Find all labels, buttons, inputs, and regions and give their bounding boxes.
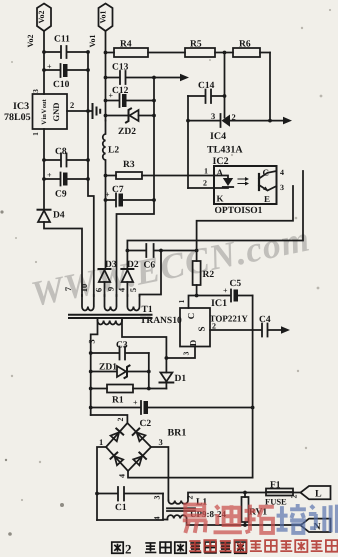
junction C2 row / right rail: [251, 406, 255, 410]
svg-text:+: +: [223, 286, 228, 295]
wire R3 to opto pin1: [142, 175, 214, 177]
svg-text:A: A: [217, 168, 224, 178]
choke L1 bottom winding: [167, 515, 300, 525]
svg-text:R2: R2: [203, 270, 215, 280]
svg-text:3: 3: [153, 496, 162, 500]
svg-text:+: +: [47, 62, 52, 71]
svg-text:+: +: [47, 171, 52, 180]
T1 secondary winding 6-9: [105, 295, 117, 311]
svg-text:2: 2: [125, 542, 132, 557]
svg-text:C11: C11: [54, 35, 70, 45]
svg-text:3: 3: [182, 351, 191, 355]
capacitor C1: [97, 487, 163, 501]
svg-text:IC3: IC3: [13, 101, 29, 112]
node L input flag: [301, 486, 331, 499]
resistor R6: [233, 48, 270, 57]
svg-text:IC4: IC4: [210, 131, 226, 142]
junction C10 left: [42, 68, 46, 72]
junction R5/R6: [223, 51, 227, 55]
choke L1 top winding: [168, 493, 300, 504]
svg-text:C8: C8: [55, 147, 67, 157]
capacitor C2 (electrolytic) on DC bus row: [91, 401, 253, 414]
svg-text:1: 1: [177, 299, 186, 303]
node N input flag: [301, 519, 331, 532]
capacitor C12 (electrolytic): [106, 94, 155, 107]
svg-text:Vo1: Vo1: [88, 34, 97, 47]
svg-text:L: L: [315, 489, 322, 500]
wire feedback rail (C14 left / opto K): [187, 96, 189, 188]
svg-text:4: 4: [118, 474, 127, 478]
junction ZD1 right: [147, 370, 151, 374]
bridge diode top-right: [133, 428, 146, 441]
svg-text:3: 3: [159, 437, 163, 447]
junction C13 left: [104, 76, 108, 80]
junction C14/ref: [223, 94, 227, 98]
junction C1 left: [95, 492, 99, 496]
caption 图2 系统电源原理图: [112, 542, 123, 553]
red watermark big characters 易迪拓: [183, 505, 274, 533]
svg-text:+: +: [133, 398, 138, 407]
svg-text:R5: R5: [190, 40, 202, 50]
svg-text:T1: T1: [142, 305, 153, 315]
junction C13/right rail: [152, 76, 156, 80]
svg-text:R3: R3: [123, 160, 135, 170]
svg-text:1: 1: [204, 167, 208, 176]
svg-text:BR1: BR1: [168, 428, 187, 439]
optocoupler IC2 body: [214, 166, 277, 204]
wire opto pin2 row: [188, 187, 214, 189]
T1 primary winding: [98, 318, 123, 325]
svg-text:L2: L2: [108, 146, 119, 156]
svg-text:1: 1: [31, 132, 40, 136]
wire Vo1 rail: [105, 31, 107, 121]
junction C8 right: [86, 158, 90, 162]
svg-text:5: 5: [128, 288, 138, 292]
wire IC3 pin2 to ground: [67, 110, 93, 112]
diode D2: [121, 269, 133, 296]
svg-text:Vo2: Vo2: [37, 10, 46, 23]
junction C11 left: [42, 50, 46, 54]
svg-text:IC2: IC2: [213, 156, 229, 167]
T1 secondary winding 4-5: [127, 295, 139, 311]
net arrow after IC4: [283, 117, 292, 125]
svg-text:9: 9: [106, 287, 116, 291]
junction R4 row: [104, 51, 108, 55]
svg-text:2: 2: [116, 418, 125, 422]
junction C9 right: [86, 177, 90, 181]
blue watermark big characters 培训: [277, 504, 337, 533]
diode D3: [99, 269, 111, 296]
junction C6 left: [126, 249, 130, 253]
bridge diode top-left: [110, 429, 123, 442]
svg-text:C: C: [186, 313, 196, 320]
wire bridge + to DC row: [91, 415, 128, 423]
svg-text:F1: F1: [270, 481, 281, 491]
svg-text:10: 10: [79, 284, 89, 293]
wire IC1 pin3 drain: [166, 347, 195, 359]
wire to transformer pin5: [140, 251, 162, 297]
junction C10 right: [86, 68, 90, 72]
opto LED: [214, 176, 233, 189]
svg-text:2: 2: [212, 322, 216, 331]
wire primary left (pin3) down: [91, 321, 98, 416]
wire right rail C11/C10/C8/C9: [88, 52, 94, 296]
wire R5/R6 tap down to TL431 ref: [224, 53, 226, 118]
svg-text:E: E: [264, 194, 270, 204]
resistor R2: [193, 261, 201, 296]
svg-text:C1: C1: [115, 503, 127, 513]
junction DC+ row: [89, 406, 93, 410]
svg-text:2: 2: [203, 179, 207, 188]
diode D4: [38, 210, 51, 222]
svg-text:4: 4: [153, 517, 162, 521]
svg-text:C4: C4: [259, 315, 271, 325]
ground (earth, rotated): [93, 104, 101, 118]
svg-text:4: 4: [280, 168, 284, 177]
svg-text:1: 1: [99, 437, 103, 447]
choke L1 core: [167, 508, 195, 511]
switcher IC1 TOP221Y body: [180, 308, 210, 347]
zener ZD1: [91, 366, 149, 379]
svg-text:3: 3: [87, 339, 97, 343]
fuse F1: [266, 489, 293, 496]
svg-text:C10: C10: [53, 80, 70, 90]
shunt regulator IC4 TL431A: [188, 114, 283, 127]
svg-text:ZD2: ZD2: [118, 127, 136, 137]
svg-text:C3: C3: [116, 341, 128, 351]
junction C8 left: [42, 158, 46, 162]
bridge diode bottom-left: [111, 453, 124, 466]
svg-text:S: S: [197, 326, 207, 331]
capacitor C5 (electrolytic): [231, 290, 253, 302]
wire opto E net (pin3 to R2): [197, 186, 293, 261]
wire right rail ZD2 down to pin9: [117, 78, 155, 297]
svg-text:TRANS10: TRANS10: [140, 316, 182, 326]
svg-text:78L05: 78L05: [4, 112, 31, 123]
opto phototransistor: [259, 171, 277, 191]
junction C12 left: [104, 99, 108, 103]
svg-text:6: 6: [94, 288, 104, 292]
junction C7 right: [152, 198, 156, 202]
wire DC- right rail: [252, 296, 254, 478]
svg-text:C6: C6: [144, 261, 156, 271]
transformer T1 core: [69, 315, 152, 318]
svg-text:C2: C2: [140, 419, 152, 429]
opto coupling arrows: [238, 177, 249, 186]
capacitor C11: [44, 46, 88, 58]
svg-text:C5: C5: [230, 279, 242, 289]
svg-text:WWW.ECCN.com: WWW.ECCN.com: [28, 218, 314, 314]
svg-text:V in V out: V in V out: [41, 98, 48, 124]
svg-text:C14: C14: [198, 81, 215, 91]
svg-text:D1: D1: [175, 374, 187, 384]
svg-text:2: 2: [70, 100, 74, 110]
zener ZD2: [106, 109, 155, 123]
resistor R5: [185, 48, 233, 57]
svg-text:C7: C7: [112, 185, 124, 195]
svg-text:R1: R1: [112, 396, 124, 406]
junction C6 right on R2 rail: [195, 249, 199, 253]
capacitor C14: [188, 90, 225, 104]
svg-text:3: 3: [31, 89, 40, 93]
svg-text:TL431A: TL431A: [207, 145, 243, 156]
svg-text:C13: C13: [112, 63, 129, 73]
junction ZD2 right: [152, 114, 156, 118]
red watermark slogan line 射频和天线设计专家: [189, 540, 337, 552]
junction pin2/rail: [86, 109, 90, 113]
node Vo1 flag: [99, 4, 113, 32]
resistor R3: [106, 172, 143, 179]
svg-text:2: 2: [290, 495, 299, 499]
svg-text:Vo2: Vo2: [26, 34, 35, 47]
svg-text:C12: C12: [112, 86, 129, 96]
svg-text:D2: D2: [127, 260, 139, 270]
net arrow after C13: [180, 74, 189, 81]
bridge BR1 diamond: [106, 423, 151, 471]
junction C12 right: [152, 99, 156, 103]
svg-text:D4: D4: [53, 211, 65, 221]
wire opto C net (pin4 to D2): [127, 171, 303, 269]
wire Vo2 rail upper: [43, 31, 45, 94]
wire IC1 pin2 to C4: [210, 329, 262, 331]
junction TL431 row left: [186, 119, 190, 123]
svg-text:OPTOISO1: OPTOISO1: [215, 206, 263, 216]
junction R1 row / clamp rail: [147, 387, 151, 391]
wire D4 to transformer pin7: [44, 222, 82, 296]
wire bridge node4 to DC- rail: [128, 471, 253, 478]
junction C7 left: [104, 198, 108, 202]
wire IC3 pin1 rail down: [43, 129, 45, 210]
svg-text:C9: C9: [55, 190, 67, 200]
junction C9 left: [42, 177, 46, 181]
svg-text:Vo1: Vo1: [99, 10, 108, 23]
junction RV1 bottom: [243, 523, 247, 527]
wire clamp right rail: [148, 353, 150, 389]
junction C3 row: [89, 351, 93, 355]
svg-text:2: 2: [232, 112, 236, 122]
inductor L2: [103, 121, 106, 270]
svg-text:R4: R4: [120, 40, 132, 50]
svg-text:ZD1: ZD1: [99, 363, 117, 373]
capacitor C13: [106, 71, 182, 84]
net arrow after C4: [281, 326, 290, 333]
junction R2/IC1 pin1/C5: [195, 294, 199, 298]
regulator IC3 78L05 body: [33, 94, 68, 129]
diode D1: [160, 373, 174, 389]
svg-text:GND: GND: [51, 103, 61, 122]
node Vo2 flag: [37, 4, 51, 32]
bridge diode bottom-right: [133, 452, 146, 465]
wire IC1 pin1 node row: [189, 296, 231, 309]
junction R3 row: [104, 174, 108, 178]
junction C6/pin5 branch: [159, 249, 163, 253]
junction drain/primary: [165, 356, 169, 360]
junction TL431 row / R6 drop: [268, 119, 272, 123]
wire R6 down to IC4 row: [269, 53, 271, 121]
capacitor C4: [262, 324, 281, 337]
wire bridge node1 down: [97, 447, 106, 520]
varistor RV1: [242, 493, 249, 526]
svg-text:D3: D3: [105, 260, 117, 270]
svg-text:3: 3: [280, 183, 284, 192]
wire bottom row to L1 pin4: [97, 519, 167, 522]
resistor R1: [91, 385, 167, 393]
junction C11 right: [86, 50, 90, 54]
svg-text:2: 2: [186, 496, 195, 500]
svg-text:IC1: IC1: [211, 298, 227, 309]
T1 secondary winding 7-10: [82, 295, 94, 311]
svg-text:K: K: [217, 194, 224, 204]
capacitor C10 (electrolytic): [44, 64, 88, 77]
capacitor C6: [127, 244, 196, 257]
junction ZD2 left: [104, 114, 108, 118]
svg-text:C: C: [263, 168, 270, 178]
capacitor C3: [91, 347, 149, 360]
wire C1 right down to L1 pin4: [162, 494, 164, 520]
svg-text:R6: R6: [239, 40, 251, 50]
wire bridge node3 to L1 pin3: [151, 447, 168, 501]
capacitor C8: [44, 154, 88, 167]
svg-text:+: +: [105, 190, 110, 199]
junction ZD1 row left: [89, 370, 93, 374]
resistor R4: [106, 48, 186, 57]
junction R1 row left: [89, 387, 93, 391]
svg-text:3: 3: [211, 111, 215, 121]
capacitor C9 (electrolytic): [44, 173, 88, 186]
wire primary right to drain: [122, 321, 166, 373]
junction RV1 top: [243, 491, 247, 495]
svg-text:D: D: [188, 339, 198, 346]
capacitor C7 (electrolytic): [106, 194, 155, 207]
